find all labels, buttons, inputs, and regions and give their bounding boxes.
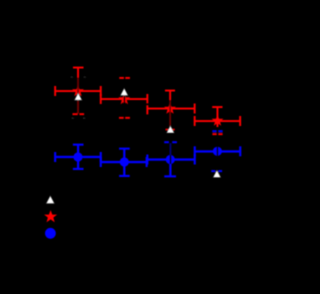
red point 4 vertical error bar top cap and bright line bbox=[212, 106, 222, 127]
blue point 3 lower bright line and bottom cap bbox=[164, 163, 176, 177]
red point 4 horizontal error bar bbox=[194, 116, 241, 126]
red point 3 vertical error bar bottom cap bbox=[166, 129, 175, 131]
blue point 4 circle marker bbox=[213, 147, 222, 156]
red point 4 star marker bbox=[212, 115, 224, 126]
hidden black cap end specks near point 1 bbox=[71, 76, 86, 119]
dark red stub below triangle 1 bbox=[77, 101, 79, 114]
blue point 3 circle marker bbox=[166, 155, 175, 164]
blue point 4 circle slit bbox=[217, 147, 219, 157]
blue point 3 dark line to marker bbox=[170, 143, 172, 155]
red point 1 star marker bbox=[72, 85, 84, 96]
legend white triangle bbox=[46, 196, 54, 204]
white triangle 4 bbox=[213, 170, 220, 177]
red point 4 vertical error bar bottom cap (gapped) bbox=[212, 133, 222, 135]
blue point 1 vertical error bar bbox=[73, 144, 84, 170]
red point 2 vertical error bar top cap (gapped) bbox=[119, 77, 130, 79]
white triangle 3 bbox=[167, 126, 174, 133]
blue point 4 horizontal error bar bbox=[194, 146, 242, 156]
red point 3 star slit bbox=[169, 103, 171, 114]
red point 1 vertical error bar dark line bbox=[77, 78, 79, 114]
legend blue circle bbox=[45, 228, 56, 239]
white triangle 1 bbox=[75, 93, 82, 100]
blue point 2 vertical error bar bbox=[119, 148, 130, 177]
blue point 2 circle marker bbox=[120, 157, 129, 166]
blue point 1 circle marker bbox=[73, 152, 82, 161]
red point 3 vertical error bar dark line bbox=[169, 100, 171, 129]
blue point 3 vertical error bar top cap (gapped) bbox=[164, 141, 177, 143]
blue point 3 horizontal error bar bbox=[146, 155, 196, 165]
red point 3 vertical error bar top cap bbox=[165, 90, 175, 100]
blue point 3 circle slit bbox=[170, 155, 172, 164]
white triangle 2 bbox=[121, 88, 128, 95]
red point 2 star slit (black) bbox=[124, 93, 126, 104]
red point 1 vertical error bar top cap bbox=[73, 67, 84, 78]
red point 2 horizontal error bar bbox=[100, 94, 148, 104]
blue point 4 vertical error bar top cap (gapped) bbox=[212, 130, 222, 132]
red point 1 star slit bbox=[77, 86, 79, 97]
red point 3 star marker bbox=[164, 103, 176, 114]
blue point 2 horizontal error bar bbox=[100, 157, 148, 167]
red point 3 horizontal error bar bbox=[146, 104, 195, 115]
red point 1 vertical error bar bottom cap bbox=[73, 113, 85, 115]
red point 2 vertical error bar bottom cap (gapped) bbox=[119, 117, 130, 119]
legend red star bbox=[44, 210, 57, 222]
blue point 4 vertical error bar bottom cap bbox=[211, 170, 222, 172]
red point 1 horizontal error bar bbox=[54, 86, 102, 96]
blue point 1 horizontal error bar bbox=[54, 152, 102, 162]
red point 2 star marker bbox=[118, 93, 130, 104]
